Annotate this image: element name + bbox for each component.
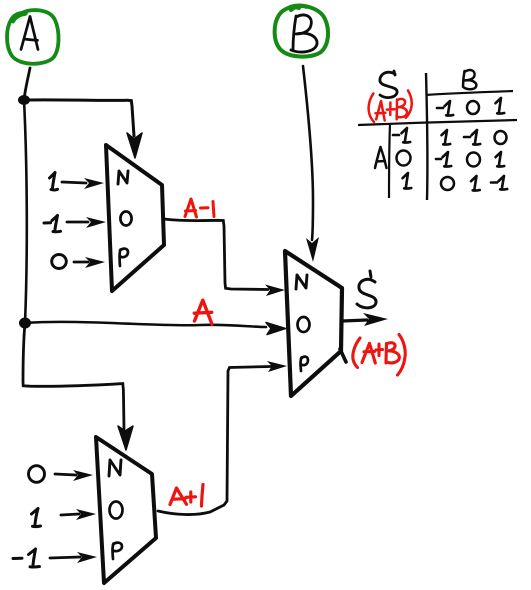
U1 input constant 1 — [50, 173, 105, 190]
wire J1 to U1 select input (top arrow) — [24, 100, 134, 136]
output wire S from U2 — [342, 320, 367, 321]
table vertical line row-label — [389, 124, 390, 198]
U3 input constant -1 — [13, 549, 97, 567]
mux U1 (top-left) — [106, 145, 164, 291]
table row header 1 — [403, 173, 412, 189]
wire A from J2 to U2 O input — [25, 322, 266, 327]
table body row3: 0 1 -1 — [441, 177, 454, 190]
mux U3 (bottom) — [96, 437, 156, 583]
table header S (script) — [380, 71, 397, 98]
label A (red, middle wire) — [194, 300, 212, 324]
table main horizontal line — [358, 120, 517, 125]
label S (script, output) — [357, 271, 376, 308]
mux U2 (middle) — [285, 251, 346, 396]
table line under B — [426, 91, 513, 95]
table header (A+B) red — [369, 91, 412, 123]
wire from A down to junction J1 — [24, 68, 30, 100]
junction dot J2 — [19, 318, 31, 329]
wire U1 output to U2 N input — [164, 219, 268, 290]
table body row1: 1 -1 0 — [442, 130, 451, 145]
wire J2 down and over to U3 select input — [23, 323, 124, 429]
table vertical line main — [426, 73, 427, 200]
U3 input constant 1 — [32, 509, 97, 527]
table body row2: -1 0 1 — [436, 152, 451, 167]
table header B — [463, 70, 476, 89]
label A+1 (red, output of U3) — [170, 485, 203, 507]
table row header 0 — [397, 151, 411, 166]
junction dot J1 — [18, 95, 30, 105]
U1 input constant 0 — [52, 255, 105, 269]
table row label A — [375, 147, 387, 168]
truth table — [358, 70, 517, 200]
wire U3 output up to U2 P input (A+1 path) — [158, 367, 271, 515]
label A-1 (red, output of U1) — [185, 199, 214, 217]
node B (green circled input label) — [275, 6, 328, 57]
wire B to U2 select — [303, 66, 313, 240]
U1 input constant -1 — [44, 216, 106, 232]
label (A+B) (red, output value) — [353, 335, 405, 376]
table col headers -1 0 1 — [437, 101, 453, 116]
U3 input constant 0 — [29, 466, 94, 483]
node A (green circled input label) — [7, 10, 59, 64]
wire A bus vertical J1 to J2 — [24, 100, 27, 323]
table row header -1 — [393, 128, 410, 143]
